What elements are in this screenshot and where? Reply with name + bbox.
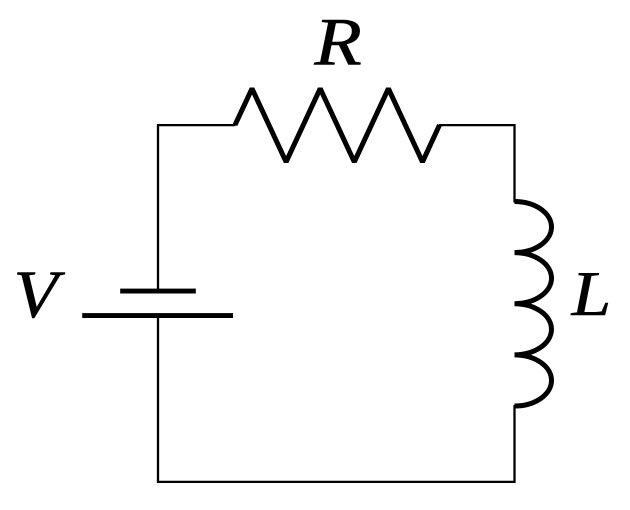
svg-text:L: L <box>571 259 612 329</box>
svg-text:R: R <box>313 3 362 79</box>
